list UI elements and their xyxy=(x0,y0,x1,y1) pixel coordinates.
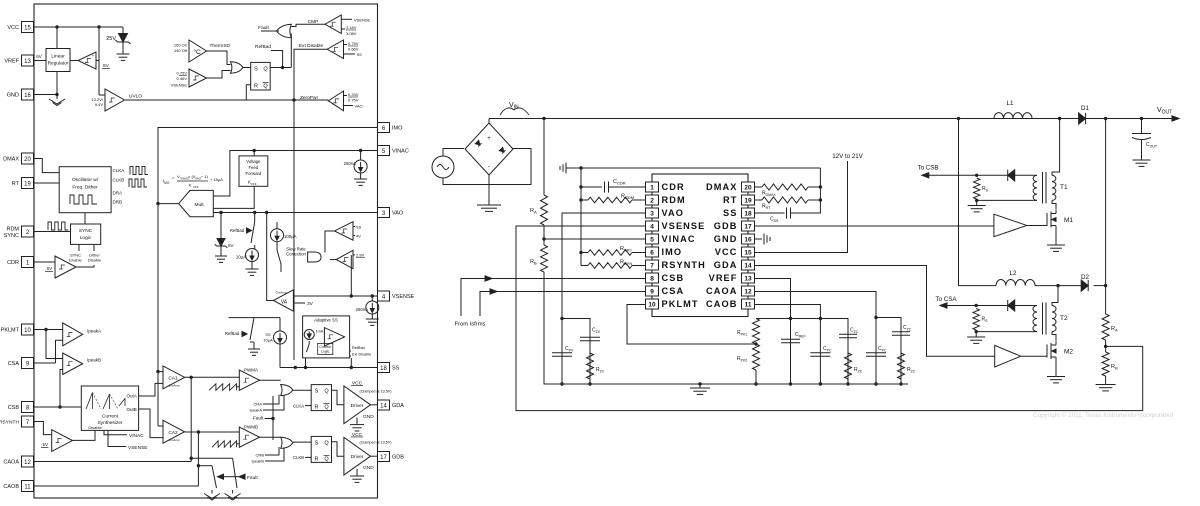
svg-text:CRA: CRA xyxy=(254,402,263,407)
svg-text:SS: SS xyxy=(357,52,363,57)
svg-text:CDR: CDR xyxy=(7,260,19,266)
svg-text:D1: D1 xyxy=(1081,105,1089,112)
svg-text:CLKB: CLKB xyxy=(113,178,125,183)
svg-text:L2: L2 xyxy=(1010,270,1017,277)
svg-text:Q: Q xyxy=(324,389,329,395)
svg-text:Q: Q xyxy=(263,67,268,73)
svg-text:Voltage: Voltage xyxy=(246,159,261,164)
svg-text:Adaptive SS: Adaptive SS xyxy=(314,318,338,323)
svg-text:CAOB: CAOB xyxy=(706,299,737,309)
svg-text:3V: 3V xyxy=(307,301,314,307)
svg-text:13: 13 xyxy=(744,275,752,282)
svg-text:RefBad: RefBad xyxy=(225,331,240,336)
svg-text:CSA: CSA xyxy=(8,361,20,367)
svg-text:D2: D2 xyxy=(1081,274,1089,281)
svg-text:6V: 6V xyxy=(103,63,110,69)
svg-text:2: 2 xyxy=(650,197,654,204)
svg-text:VREF: VREF xyxy=(709,273,738,283)
svg-text:7: 7 xyxy=(650,262,654,269)
svg-text:Driver: Driver xyxy=(351,403,364,409)
svg-text:SYNC: SYNC xyxy=(4,233,19,239)
svg-text:S: S xyxy=(315,389,319,395)
svg-text:GDB: GDB xyxy=(392,455,404,461)
svg-text:GND: GND xyxy=(7,93,19,99)
svg-text:RA: RA xyxy=(530,208,537,215)
svg-text:13: 13 xyxy=(24,59,31,65)
svg-text:18: 18 xyxy=(744,210,752,217)
svg-text:CLKA: CLKA xyxy=(113,168,125,173)
svg-text:CAOA: CAOA xyxy=(3,460,19,466)
svg-text:ThermSD: ThermSD xyxy=(210,43,231,49)
svg-text:R: R xyxy=(315,405,319,411)
svg-text:8: 8 xyxy=(650,275,654,282)
svg-text:VAO: VAO xyxy=(355,104,363,109)
svg-text:CAOB: CAOB xyxy=(3,484,19,490)
svg-text:GmAmp: GmAmp xyxy=(275,291,286,295)
svg-text:SS: SS xyxy=(356,225,362,230)
svg-text:4: 4 xyxy=(650,223,654,230)
svg-text:PKLMT: PKLMT xyxy=(662,299,699,309)
svg-text:To CSA: To CSA xyxy=(936,296,958,303)
svg-text:9.4V: 9.4V xyxy=(95,102,104,107)
svg-text:Freq. Dither: Freq. Dither xyxy=(72,185,98,191)
svg-text:16: 16 xyxy=(24,93,31,99)
svg-text:Current: Current xyxy=(102,414,119,420)
svg-text:RSYN: RSYN xyxy=(620,260,632,267)
svg-text:CA1: CA1 xyxy=(168,376,178,382)
svg-text:− 1): − 1) xyxy=(201,174,209,179)
svg-text:2.8V: 2.8V xyxy=(356,253,365,258)
svg-text:IMO: IMO xyxy=(392,126,403,132)
svg-text:VFF: VFF xyxy=(193,185,199,189)
svg-text:0.66V: 0.66V xyxy=(348,47,359,52)
svg-text:SYNC: SYNC xyxy=(79,228,93,234)
svg-text:PWMB: PWMB xyxy=(244,425,258,430)
svg-text:CA2: CA2 xyxy=(168,430,178,436)
svg-text:12: 12 xyxy=(24,460,31,466)
svg-text:16: 16 xyxy=(744,236,752,243)
svg-text:SS: SS xyxy=(265,332,271,337)
svg-text:+: + xyxy=(92,53,95,58)
svg-text:VCC: VCC xyxy=(7,25,19,31)
svg-text:10µA: 10µA xyxy=(263,338,273,343)
svg-text:RB: RB xyxy=(1111,364,1118,371)
svg-text:Fault: Fault xyxy=(247,475,258,481)
svg-text:DRA: DRA xyxy=(113,191,123,196)
svg-text:0.33V: 0.33V xyxy=(348,92,359,97)
svg-text:GDA: GDA xyxy=(392,403,404,409)
svg-text:DMAX: DMAX xyxy=(3,157,19,163)
svg-text:12V to 21V: 12V to 21V xyxy=(832,153,863,160)
svg-text:3: 3 xyxy=(650,210,654,217)
svg-text:Ext Disable: Ext Disable xyxy=(299,43,324,49)
svg-text:VAO: VAO xyxy=(662,208,685,218)
svg-text:GDB: GDB xyxy=(714,221,738,231)
svg-text:19: 19 xyxy=(744,197,752,204)
svg-text:UVLO: UVLO xyxy=(129,94,142,100)
svg-text:25V: 25V xyxy=(106,36,116,42)
svg-text:19: 19 xyxy=(24,181,31,187)
svg-text:To CSB: To CSB xyxy=(918,165,939,172)
svg-text:R: R xyxy=(315,456,319,462)
svg-text:VSENSE: VSENSE xyxy=(128,445,147,451)
svg-text:K: K xyxy=(189,183,192,188)
svg-text:IpeakB: IpeakB xyxy=(252,459,265,464)
svg-text:OutB: OutB xyxy=(127,407,137,412)
svg-text:CSB: CSB xyxy=(662,273,685,283)
svg-text:S: S xyxy=(254,67,258,73)
svg-text:Enable: Enable xyxy=(69,258,82,263)
svg-text:RefBad: RefBad xyxy=(230,228,245,233)
svg-text:CLKB: CLKB xyxy=(293,455,304,460)
svg-text:RSYNTH: RSYNTH xyxy=(662,260,706,270)
svg-text:100µA: 100µA xyxy=(284,234,297,239)
svg-text:1mA: 1mA xyxy=(316,330,324,334)
svg-text:Fault: Fault xyxy=(253,416,264,422)
svg-text:SS: SS xyxy=(392,366,400,372)
svg-text:250nA: 250nA xyxy=(356,307,369,312)
svg-text:3.08V: 3.08V xyxy=(346,31,357,36)
svg-text:VINAC: VINAC xyxy=(392,149,409,155)
svg-text:CCDR: CCDR xyxy=(613,179,626,186)
svg-text:IpeakA: IpeakA xyxy=(250,408,263,413)
svg-text:PKLMT: PKLMT xyxy=(1,328,20,334)
svg-text:10µA: 10µA xyxy=(236,255,246,260)
svg-text:VSENSE: VSENSE xyxy=(392,294,415,300)
svg-text:Disable: Disable xyxy=(88,258,102,263)
svg-text:VAO: VAO xyxy=(392,211,404,217)
svg-text:-: - xyxy=(488,164,490,170)
svg-text:IpeakB: IpeakB xyxy=(87,358,101,363)
svg-text:Copyright © 2011, Texas Instru: Copyright © 2011, Texas Instruments Inco… xyxy=(1033,411,1174,419)
svg-text:VSENSE: VSENSE xyxy=(171,83,188,88)
svg-text:°C: °C xyxy=(193,48,201,56)
svg-text:6: 6 xyxy=(650,249,654,256)
svg-text:Mult: Mult xyxy=(194,202,204,208)
svg-text:Forward: Forward xyxy=(246,171,262,176)
svg-text:CRB: CRB xyxy=(256,453,265,458)
svg-text:RB: RB xyxy=(530,259,537,266)
svg-text:+: + xyxy=(487,136,491,142)
svg-text:11: 11 xyxy=(745,301,752,308)
svg-text:RDM: RDM xyxy=(662,195,686,205)
svg-text:Fault: Fault xyxy=(258,25,269,31)
svg-text:=: = xyxy=(172,176,175,181)
svg-text:VINAC: VINAC xyxy=(129,433,144,439)
svg-text:0.75V: 0.75V xyxy=(177,71,188,76)
svg-text:IpeakA: IpeakA xyxy=(87,329,101,334)
svg-text:RT: RT xyxy=(723,195,737,205)
svg-text:VINAC: VINAC xyxy=(662,234,696,244)
svg-text:R: R xyxy=(254,84,258,90)
svg-text:DMAX: DMAX xyxy=(706,182,737,192)
svg-text:IMO: IMO xyxy=(662,247,683,257)
svg-text:10: 10 xyxy=(648,301,656,308)
svg-text:GmAmp: GmAmp xyxy=(168,438,179,442)
svg-text:0.46V: 0.46V xyxy=(177,76,188,81)
svg-text:3.18V: 3.18V xyxy=(346,25,357,30)
svg-text:PWMA: PWMA xyxy=(244,368,258,373)
svg-text:140 Off: 140 Off xyxy=(174,48,188,53)
svg-text:5: 5 xyxy=(650,236,654,243)
svg-text:17: 17 xyxy=(744,223,752,230)
svg-text:15: 15 xyxy=(24,25,31,31)
svg-text:Logic: Logic xyxy=(80,235,92,241)
svg-text:GND: GND xyxy=(363,414,374,420)
svg-text:T1: T1 xyxy=(1060,184,1068,191)
svg-text:Driver: Driver xyxy=(351,454,364,460)
svg-text:(Clamped at 13.5V): (Clamped at 13.5V) xyxy=(360,389,392,393)
svg-text:SS: SS xyxy=(723,208,737,218)
svg-text:Feed: Feed xyxy=(249,165,259,170)
svg-text:15: 15 xyxy=(744,249,752,256)
svg-text:RefBad: RefBad xyxy=(352,346,365,350)
svg-text:5V: 5V xyxy=(228,243,234,248)
svg-text:CAOA: CAOA xyxy=(706,286,737,296)
svg-text:Logic: Logic xyxy=(321,349,330,353)
svg-text:9: 9 xyxy=(650,288,654,295)
svg-text:S: S xyxy=(315,440,319,446)
svg-text:CSB: CSB xyxy=(8,405,20,411)
svg-text:1: 1 xyxy=(650,184,654,191)
svg-text:160 On: 160 On xyxy=(174,43,187,48)
svg-text:VSENSE: VSENSE xyxy=(662,221,706,231)
svg-text:RRDM: RRDM xyxy=(621,194,634,201)
svg-text:M1: M1 xyxy=(1064,217,1073,224)
svg-text:VCC: VCC xyxy=(715,247,738,257)
svg-text:4V: 4V xyxy=(356,234,361,239)
svg-text:(Clamped at 13.5V): (Clamped at 13.5V) xyxy=(360,441,392,445)
svg-text:0.75V: 0.75V xyxy=(348,98,359,103)
svg-text:Q: Q xyxy=(324,440,329,446)
svg-text:RA: RA xyxy=(1111,326,1118,333)
svg-text:6V: 6V xyxy=(36,54,42,59)
svg-text:20: 20 xyxy=(24,157,31,163)
svg-text:RSYNTH: RSYNTH xyxy=(0,420,19,426)
svg-text:ZeroPwr: ZeroPwr xyxy=(300,95,319,101)
svg-text:GmAmp: GmAmp xyxy=(168,384,179,388)
svg-text:Ext Disable: Ext Disable xyxy=(352,353,371,357)
svg-text:T2: T2 xyxy=(1060,315,1068,322)
svg-text:14: 14 xyxy=(744,262,752,269)
svg-text:Linear: Linear xyxy=(51,54,65,60)
svg-text:VREF: VREF xyxy=(4,59,19,65)
svg-text:Q: Q xyxy=(263,84,268,90)
svg-text:12: 12 xyxy=(744,288,752,295)
svg-text:17: 17 xyxy=(380,455,387,461)
svg-text:Disable: Disable xyxy=(88,425,102,430)
svg-text:11: 11 xyxy=(24,484,31,490)
svg-text:5V: 5V xyxy=(42,442,48,447)
svg-text:Q: Q xyxy=(324,405,329,411)
svg-text:OutA: OutA xyxy=(127,394,137,399)
svg-text:RT: RT xyxy=(12,181,20,187)
svg-text:10: 10 xyxy=(24,328,31,334)
svg-text:+ 15µA: + 15µA xyxy=(210,177,223,182)
svg-text:CLKA: CLKA xyxy=(293,403,304,408)
svg-text:VSENSE: VSENSE xyxy=(354,17,371,22)
svg-text:GDA: GDA xyxy=(714,260,738,270)
svg-text:CDR: CDR xyxy=(662,182,685,192)
svg-text:RIMO: RIMO xyxy=(620,246,632,253)
svg-text:RDM: RDM xyxy=(6,227,19,233)
svg-text:18: 18 xyxy=(380,366,387,372)
svg-text:VA: VA xyxy=(281,300,288,306)
svg-text:M2: M2 xyxy=(1064,349,1073,356)
svg-text:L1: L1 xyxy=(1007,100,1014,107)
svg-text:20: 20 xyxy=(744,184,752,191)
svg-text:Oscillator w/: Oscillator w/ xyxy=(72,177,99,183)
svg-text:CSA: CSA xyxy=(662,286,685,296)
svg-text:250nA: 250nA xyxy=(344,161,357,166)
svg-text:RefBad: RefBad xyxy=(255,44,271,50)
svg-text:Correction: Correction xyxy=(286,252,306,257)
svg-text:14: 14 xyxy=(380,403,387,409)
svg-text:Q: Q xyxy=(324,456,329,462)
svg-text:GND: GND xyxy=(363,465,374,471)
svg-text:5V: 5V xyxy=(47,266,53,271)
svg-text:0.75V: 0.75V xyxy=(348,41,359,46)
svg-text:DRB: DRB xyxy=(113,200,123,205)
svg-text:Regulator: Regulator xyxy=(48,61,69,67)
svg-text:From Isfrms: From Isfrms xyxy=(455,322,486,328)
svg-text:GND: GND xyxy=(714,234,738,244)
